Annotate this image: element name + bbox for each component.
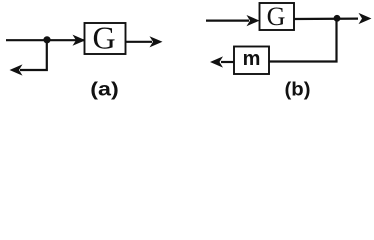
arrowhead: feedback output pointing left figure (b) (210, 56, 223, 67)
svg-text:G: G (267, 2, 286, 31)
block m (b): measurement box (234, 47, 269, 75)
wire: input line of figure (a) (6, 39, 84, 41)
node: takeoff junction dot figure (b) (334, 15, 341, 22)
arrowhead: into block G of figure (a) (73, 35, 86, 46)
block G (a): transfer function box (85, 23, 126, 54)
arrowhead: feedback output pointing left figure (a) (10, 64, 23, 75)
svg-text:G: G (92, 19, 115, 55)
arrowhead: into block G of figure (b) (247, 15, 260, 26)
arrowhead: output of figure (b) (359, 13, 372, 24)
svg-text:(b): (b) (285, 80, 311, 101)
svg-text:m: m (243, 48, 261, 70)
block G (b): transfer function box (260, 3, 295, 30)
wire: output line of figure (a) (126, 41, 153, 43)
wire: output line of figure (b) (294, 18, 358, 21)
node: takeoff junction dot figure (a) (43, 36, 50, 43)
svg-text:(a): (a) (90, 80, 119, 101)
wire: feedback output line left of block m figure (b) (221, 61, 234, 63)
arrowhead: output of figure (a) (150, 36, 163, 47)
wire: feedback takeoff vertical + horizontal of figure (a) (20, 40, 47, 70)
wire: feedback vertical from junction down figure (b) (269, 18, 337, 61)
wire: input line of figure (b) (206, 20, 249, 22)
